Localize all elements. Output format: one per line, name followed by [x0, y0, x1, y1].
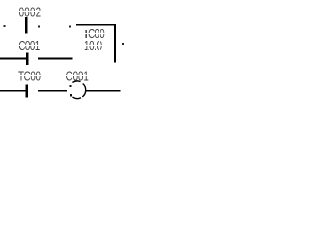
- wire, rung 3 middle segment to coil: [38, 90, 67, 92]
- contact 0002 (left bar, rung 1): [25, 17, 27, 34]
- coil C001 (circle symbol, top arc): [72, 81, 80, 82]
- coil C001 (circle symbol, left arc remnant dot lower): [70, 94, 72, 96]
- label C001 (output coil, rung 3): [66, 70, 89, 84]
- wire remnant dot, rung 1 right of contact: [38, 26, 40, 28]
- timer box TC00 right edge: [114, 24, 116, 63]
- coil C001 (circle symbol, right arc): [82, 84, 85, 97]
- downscale artifact stripes over labels (decorative-free: part of glyph look): [17, 11, 107, 76]
- wire, rung 3 left segment: [0, 90, 27, 92]
- wire, rung 2 right segment into timer box: [38, 58, 73, 60]
- coil C001 (circle symbol, left arc remnant dot upper): [70, 85, 72, 87]
- svg-text:TC00: TC00: [18, 70, 41, 84]
- timer preset 10.0 (box line 2): [84, 40, 102, 54]
- svg-text:0002: 0002: [19, 6, 42, 20]
- label 0002 (input contact address, rung 1): [19, 6, 42, 20]
- timer label TC00 (box line 1) T-stem reinforcement: [85, 29, 87, 38]
- coil C001 (circle symbol, bottom arc): [72, 97, 81, 98]
- node junction dot, rung 1 branch point: [69, 26, 71, 28]
- svg-text:C001: C001: [66, 70, 89, 84]
- timer box TC00 top edge: [76, 24, 115, 26]
- timer label TC00 (box line 1): [83, 28, 105, 42]
- wire, rung 3 right segment to right rail: [86, 90, 121, 92]
- label TC00 (timer contact, rung 3): [18, 70, 41, 84]
- wire, rung 2 left segment: [0, 58, 27, 60]
- contact TC00 (left bar): [26, 84, 28, 97]
- contact C001 (left bar): [26, 52, 28, 65]
- label C001 (parallel contact, rung 2): [18, 40, 40, 54]
- wire remnant dot, right of timer box mid: [122, 43, 124, 45]
- svg-text:C001: C001: [18, 40, 40, 54]
- wire remnant dot, rung 1 left rail: [4, 25, 6, 27]
